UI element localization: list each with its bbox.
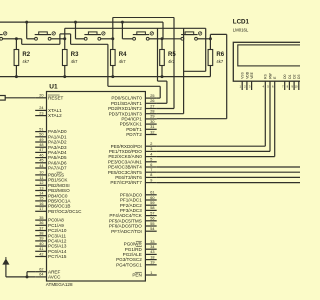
svg-text:33: 33 — [150, 240, 154, 244]
pin LCD D1 8 — [287, 74, 292, 90]
svg-text:AVCC: AVCC — [48, 275, 61, 280]
node R3 junction — [63, 37, 66, 40]
svg-text:LCD1: LCD1 — [233, 19, 250, 26]
pin XTAL2 23 — [35, 111, 62, 118]
svg-text:4k7: 4k7 — [216, 59, 223, 64]
svg-text:R3: R3 — [71, 52, 79, 58]
svg-text:14: 14 — [39, 192, 43, 196]
svg-text:1: 1 — [150, 271, 152, 275]
node R5 junction — [161, 37, 164, 40]
pin PF7 — [111, 227, 157, 234]
svg-text:13: 13 — [39, 186, 43, 190]
svg-text:11: 11 — [40, 176, 44, 180]
pin PD0 — [111, 94, 156, 101]
node AVCC junction — [26, 275, 29, 278]
svg-text:39: 39 — [39, 237, 43, 241]
pin LCD D3 10 — [294, 74, 301, 90]
pin PF2 — [120, 201, 157, 208]
pin PE5 — [108, 168, 157, 175]
display LCD1 body — [233, 42, 307, 81]
node R4 junction — [111, 37, 114, 40]
op-amp U1 ATMEGA128 body — [47, 92, 146, 282]
pin PD1 — [111, 99, 157, 106]
pin PG0 — [124, 240, 157, 247]
svg-text:3: 3 — [150, 147, 152, 151]
svg-text:6: 6 — [150, 163, 152, 167]
svg-text:43: 43 — [150, 250, 154, 254]
resistor R5 4k7 — [160, 39, 177, 77]
svg-text:59: 59 — [150, 201, 154, 205]
pushbutton BTN5 — [181, 32, 202, 40]
wire net5 R6-junction to PD4 pin29 — [157, 34, 227, 118]
pin PB4 — [35, 192, 68, 199]
pin PF1 — [120, 196, 157, 203]
display LCD1 screen — [238, 45, 308, 66]
svg-text:42: 42 — [39, 252, 43, 256]
pin PC6 — [35, 247, 67, 254]
pin PE1 — [109, 147, 157, 154]
pin PF3 — [120, 206, 157, 213]
svg-text:38: 38 — [39, 232, 43, 236]
pin PD7 — [126, 130, 156, 137]
svg-text:2: 2 — [150, 142, 152, 146]
power VCC arrow — [3, 257, 9, 264]
svg-text:60: 60 — [150, 196, 154, 200]
wire rail drop to btn2 left — [27, 22, 35, 39]
pin LCD RW 5 — [267, 72, 272, 90]
pin PC2 — [35, 226, 67, 233]
pushbutton BTN3 — [84, 32, 105, 40]
svg-text:31: 31 — [150, 125, 154, 129]
pin AVCC 64 — [35, 273, 61, 280]
svg-text:56: 56 — [150, 217, 154, 221]
svg-text:D0: D0 — [283, 74, 287, 78]
svg-text:29: 29 — [150, 115, 154, 119]
pin PB1 — [35, 176, 68, 183]
label ATMEGA128 — [46, 282, 73, 287]
svg-text:34: 34 — [150, 245, 154, 249]
svg-text:55: 55 — [150, 222, 154, 226]
svg-text:R6: R6 — [216, 52, 224, 58]
svg-text:PB7/OC2/OC1C: PB7/OC2/OC1C — [48, 209, 82, 214]
svg-text:PE7/ICP3/INT7: PE7/ICP3/INT7 — [110, 180, 142, 185]
resistor R4 4k7 — [111, 39, 128, 77]
wire LCD RW to PE1 — [157, 90, 270, 151]
wire LCD E to PE2 — [157, 90, 275, 157]
svg-text:26: 26 — [150, 99, 154, 103]
svg-text:7: 7 — [150, 168, 152, 172]
wire PE4 to LCD D4 — [157, 166, 300, 168]
label LM016L — [233, 28, 249, 33]
svg-text:27: 27 — [150, 104, 154, 108]
svg-text:RS: RS — [264, 73, 268, 78]
svg-text:15: 15 — [39, 197, 43, 201]
svg-text:5: 5 — [150, 158, 152, 162]
svg-text:VDD: VDD — [245, 71, 249, 79]
pin LCD VEE 3 — [249, 71, 254, 90]
wire LCD RS to PE0 — [157, 90, 266, 146]
pin LCD D0 7 — [282, 74, 287, 90]
svg-text:10: 10 — [39, 171, 43, 175]
pin PB2 — [35, 181, 70, 188]
svg-text:R2: R2 — [22, 52, 30, 58]
svg-text:D1: D1 — [288, 74, 292, 78]
pin RESET 20 — [35, 94, 63, 101]
pin PB5 — [35, 197, 71, 204]
label U1 — [49, 84, 58, 91]
svg-text:20: 20 — [39, 94, 43, 98]
svg-text:37: 37 — [39, 226, 43, 230]
pin PD3 — [109, 110, 157, 117]
svg-text:25: 25 — [150, 94, 154, 98]
pin PE3 — [108, 158, 157, 165]
svg-text:R4: R4 — [119, 52, 127, 58]
svg-text:4k7: 4k7 — [71, 59, 78, 64]
pin PB6 — [35, 202, 70, 209]
node top-rail junction 1 — [25, 21, 28, 24]
svg-text:64: 64 — [39, 273, 43, 277]
svg-text:16: 16 — [39, 202, 43, 206]
node bottom-rail junction R5 — [161, 75, 164, 78]
pin PC5 — [35, 242, 67, 249]
wire PE6 to LCD D6 — [157, 176, 300, 178]
svg-text:PEN: PEN — [132, 273, 141, 278]
pin PA7 — [35, 164, 67, 171]
svg-text:36: 36 — [39, 221, 43, 225]
svg-text:19: 19 — [150, 261, 154, 265]
pushbutton BTN1 (clipped at edge) — [0, 32, 7, 40]
pin PA2 — [35, 138, 67, 145]
pin LCD VSS 1 — [239, 71, 244, 90]
svg-text:46: 46 — [39, 153, 43, 157]
svg-text:45: 45 — [39, 159, 43, 163]
svg-text:4: 4 — [150, 152, 152, 156]
node top-rail junction 2 — [74, 21, 77, 24]
svg-text:41: 41 — [39, 247, 43, 251]
pin PA6 — [35, 159, 67, 166]
wire AREF — [27, 272, 35, 277]
svg-text:8: 8 — [150, 173, 152, 177]
svg-text:23: 23 — [39, 111, 43, 115]
svg-text:LM016L: LM016L — [233, 28, 249, 33]
wire btn3 right to R4 junction — [101, 38, 113, 40]
wire R5 junction to btn5 left — [162, 38, 181, 40]
resistor R2 4k7 — [14, 39, 31, 77]
svg-text:28: 28 — [150, 110, 154, 114]
wire PE5 to LCD D5 — [157, 171, 300, 173]
svg-text:62: 62 — [39, 268, 43, 272]
label LCD1 — [233, 19, 250, 26]
pin PF4 — [109, 211, 156, 218]
node bottom-rail junction R2 — [15, 75, 18, 78]
pin AREF 62 — [35, 268, 60, 275]
svg-text:54: 54 — [150, 227, 154, 231]
pin PG2 — [123, 250, 157, 257]
pin PD5 — [120, 120, 157, 127]
resistor R1 (clipped) at RESET — [0, 96, 35, 101]
wire net4 rail area to PD3 pin28 — [157, 28, 206, 113]
svg-text:PG4/TOSC1: PG4/TOSC1 — [116, 262, 142, 267]
wire btn1 to R2 junction — [3, 38, 17, 40]
svg-text:VEE: VEE — [250, 71, 254, 78]
wire net2 R3-junction to PD1 pin26 — [65, 28, 206, 103]
svg-text:R5: R5 — [168, 52, 176, 58]
svg-text:D2: D2 — [293, 74, 297, 78]
svg-text:49: 49 — [39, 138, 43, 142]
pin PA1 — [35, 133, 67, 140]
pin PG1 — [125, 245, 157, 252]
pin PC4 — [35, 237, 67, 244]
pin PF0 — [120, 191, 157, 198]
svg-text:PC7/A15: PC7/A15 — [48, 254, 67, 259]
svg-text:24: 24 — [39, 106, 43, 110]
svg-text:PF7/ADC7/TDI: PF7/ADC7/TDI — [111, 229, 142, 234]
pin PE2 — [108, 152, 156, 159]
pin PC1 — [35, 221, 64, 228]
pin PA5 — [35, 153, 67, 160]
svg-text:32: 32 — [150, 130, 154, 134]
svg-text:PA7/AD7: PA7/AD7 — [48, 166, 67, 171]
svg-text:35: 35 — [39, 216, 43, 220]
pin LCD VDD 2 — [244, 71, 249, 90]
svg-text:61: 61 — [150, 191, 154, 195]
svg-text:VSS: VSS — [241, 71, 245, 78]
pin PEN 1 — [132, 271, 156, 278]
svg-text:57: 57 — [150, 211, 154, 215]
svg-text:51: 51 — [39, 127, 43, 131]
svg-text:17: 17 — [39, 207, 43, 211]
pin PG3 — [116, 255, 157, 262]
pin PB0 — [35, 171, 64, 178]
svg-text:12: 12 — [39, 181, 43, 185]
svg-text:U1: U1 — [49, 84, 58, 91]
pushbutton BTN2 — [35, 32, 56, 40]
pin PE7 — [110, 178, 156, 185]
pin PC0 — [35, 216, 64, 223]
svg-text:4k7: 4k7 — [119, 59, 126, 64]
svg-text:D3: D3 — [297, 74, 300, 78]
svg-text:9: 9 — [150, 178, 152, 182]
svg-text:47: 47 — [39, 148, 43, 152]
svg-text:50: 50 — [39, 133, 43, 137]
wire net3 R4-junction to PD2 pin27 — [113, 17, 174, 108]
svg-text:18: 18 — [150, 255, 154, 259]
svg-text:58: 58 — [150, 206, 154, 210]
node R2 junction — [15, 37, 18, 40]
svg-text:40: 40 — [39, 242, 43, 246]
svg-text:RESET: RESET — [48, 95, 64, 100]
pin LCD RS 4 — [263, 73, 268, 90]
wire bottom rail — [0, 76, 210, 78]
svg-text:44: 44 — [39, 164, 43, 168]
pin PC7 — [35, 252, 67, 259]
svg-text:XTAL2: XTAL2 — [48, 113, 62, 118]
pin PD2 — [108, 104, 157, 111]
node bottom-rail junction R3 — [63, 75, 66, 78]
wire AVCC — [6, 264, 35, 277]
pin PA0 — [35, 127, 67, 134]
pin XTAL1 24 — [35, 106, 62, 113]
node bottom-rail junction R4 — [111, 75, 114, 78]
pin PA4 — [35, 148, 67, 155]
svg-text:10: 10 — [294, 85, 298, 89]
svg-text:RW: RW — [268, 72, 272, 78]
svg-text:ATMEGA128: ATMEGA128 — [46, 282, 73, 287]
pin PD4 — [121, 115, 156, 122]
wire rail drop to btn4 left — [122, 22, 132, 39]
wire btn2 right to R3 junction — [52, 38, 65, 40]
wire VCC top rail — [0, 22, 163, 39]
svg-text:PD7/T2: PD7/T2 — [126, 132, 142, 137]
svg-text:30: 30 — [150, 120, 154, 124]
wire PE7 to LCD D7 — [157, 182, 300, 184]
pin PC3 — [35, 232, 66, 239]
pin LCD D2 9 — [291, 74, 296, 90]
resistor R3 4k7 — [62, 39, 79, 77]
wire rail drop to btn3 left — [76, 22, 85, 39]
pin PE6 — [115, 173, 156, 180]
pin PG4 — [116, 261, 157, 268]
pin PF5 — [109, 217, 157, 224]
resistor R6 4k7 — [208, 39, 225, 77]
pushbutton BTN4 — [133, 32, 154, 40]
pin PA3 — [35, 143, 67, 150]
wire btn4 right to R5 junction — [149, 38, 162, 40]
pin LCD E 6 — [272, 76, 277, 90]
svg-text:48: 48 — [39, 143, 43, 147]
pin PB7 — [35, 207, 82, 214]
pin PE4 — [108, 163, 157, 170]
node R6 junction — [209, 37, 212, 40]
pin PD6 — [126, 125, 156, 132]
wire net1 R2-junction to PD0 pin25 — [16, 34, 160, 98]
pin PE0 — [111, 142, 157, 149]
svg-text:4k7: 4k7 — [22, 59, 29, 64]
wire btn5 right to R6 junction — [198, 38, 211, 40]
pin PB3 — [35, 186, 70, 193]
node top-rail junction 3 — [121, 21, 124, 24]
pin PF6 — [109, 222, 157, 229]
